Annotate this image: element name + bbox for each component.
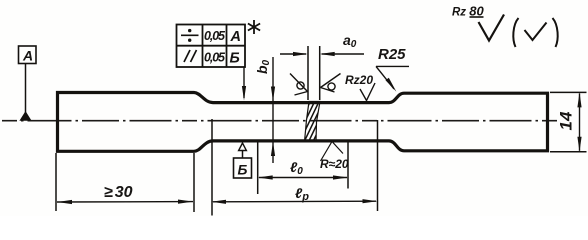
a0 extension line right	[319, 46, 321, 100]
symmetry symbol (division sign) in frame	[181, 29, 199, 42]
svg-text:14: 14	[557, 111, 576, 130]
svg-text:0,05: 0,05	[204, 51, 226, 65]
parenthesis left	[513, 18, 518, 47]
roughness symbol (circle-vee) right of section	[321, 74, 341, 93]
a0 extension line left	[307, 46, 309, 100]
specimen outline	[58, 93, 548, 152]
a0 dimension line with inward arrows	[280, 52, 364, 56]
section hatch band	[299, 59, 322, 181]
main roughness check symbol	[479, 15, 505, 41]
datum B triangle on lower edge	[239, 143, 247, 151]
svg-text:≥30: ≥30	[104, 184, 133, 201]
frame leader line with arrow	[242, 67, 246, 101]
extension line for >=30 left	[55, 153, 57, 211]
svg-text:R25: R25	[378, 46, 406, 63]
asterisk	[248, 20, 260, 34]
l0 extension line left	[257, 142, 259, 194]
datum A box	[19, 46, 37, 64]
Rz20 check symbol on gauge edge	[360, 83, 375, 101]
b0 dimension line with arrows at gauge edges	[271, 57, 275, 163]
extension line for >=30 right (at radius start)	[193, 153, 195, 212]
svg-text:A: A	[230, 29, 241, 45]
lp extension line left	[211, 119, 213, 216]
datum A triangle on axis	[20, 112, 30, 120]
R25 leader with arrow	[376, 66, 409, 91]
l0 dimension line	[258, 175, 348, 179]
tolerance frame	[177, 25, 246, 68]
R~20 leader peak	[321, 142, 344, 162]
parallelism symbol row2	[184, 50, 197, 62]
value shelf line under 80	[470, 16, 484, 18]
roughness symbol (circle-vee) left of section	[290, 74, 308, 96]
centerline (axis)	[2, 120, 557, 122]
lp dimension line	[211, 199, 378, 204]
parenthesis right	[553, 18, 558, 47]
lp extension line right	[377, 120, 379, 211]
svg-text:0,05: 0,05	[204, 29, 226, 43]
datum B leader	[242, 151, 244, 159]
datum A leader	[25, 64, 27, 114]
datum B box	[234, 158, 252, 178]
svg-text:Б: Б	[238, 162, 248, 178]
14 extension line top	[550, 91, 587, 93]
l0 extension line right	[347, 142, 349, 189]
alternate roughness check symbol	[525, 23, 547, 41]
14 extension line bottom	[550, 151, 587, 153]
svg-text:Б: Б	[230, 51, 240, 67]
14 dimension line with arrows	[577, 92, 581, 151]
>=30 dimension line	[57, 200, 193, 205]
svg-text:Rz20: Rz20	[345, 73, 373, 87]
svg-text:R≈20: R≈20	[320, 157, 349, 171]
svg-text:A: A	[22, 48, 33, 64]
